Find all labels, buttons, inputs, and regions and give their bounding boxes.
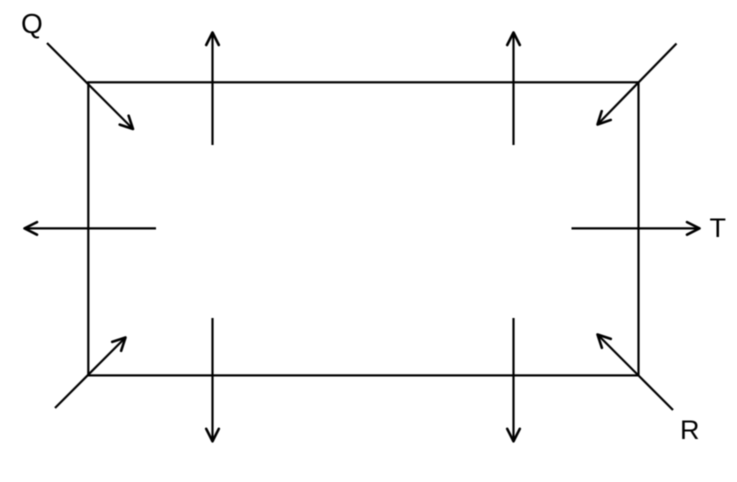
arrow into top-right corner — [598, 44, 677, 125]
arrow left horizontal (outward left) — [25, 227, 157, 229]
arrow bottom-left vertical (outward down) — [211, 318, 213, 441]
svg-text:T: T — [710, 213, 727, 243]
arrow R (into bottom-right corner) — [598, 335, 674, 411]
arrow Q (into top-left corner) — [47, 43, 133, 129]
arrow top-left vertical (outward up) — [211, 33, 213, 146]
arrow T (outward right) — [572, 227, 700, 229]
arrow top-right vertical (outward up) — [512, 33, 514, 146]
svg-text:R: R — [680, 415, 700, 445]
rectangle boundary — [88, 82, 638, 375]
arrow bottom-right vertical (outward down) — [512, 318, 514, 441]
arrow into bottom-left corner — [55, 338, 126, 409]
svg-text:Q: Q — [21, 8, 43, 39]
